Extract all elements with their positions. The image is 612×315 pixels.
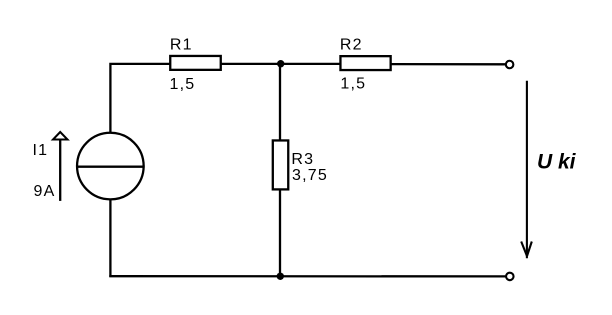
svg-text:U ki: U ki (537, 151, 577, 174)
wire: source bottom to bottom rail (109, 199, 111, 277)
svg-text:1,5: 1,5 (340, 76, 366, 93)
terminal: bottom output (open circle) (506, 273, 514, 281)
svg-text:R1: R1 (170, 36, 193, 53)
svg-text:I1: I1 (33, 142, 49, 159)
wire: R2 to output terminal (391, 63, 505, 66)
wire: R1 to node A (221, 63, 281, 65)
wire: top-left corner (source top to R1) (110, 64, 170, 134)
wire: bottom rail (109, 275, 505, 277)
svg-text:R2: R2 (340, 36, 363, 53)
resistor R2 (340, 56, 390, 70)
svg-text:R3: R3 (291, 151, 314, 168)
svg-text:3,75: 3,75 (292, 167, 328, 184)
wire: R3 to node B (279, 190, 281, 277)
svg-text:9A: 9A (34, 183, 56, 200)
wire: node A down to R3 (279, 64, 281, 141)
node B junction dot (277, 273, 284, 280)
node A junction dot (277, 60, 284, 67)
wire: node A to R2 (280, 63, 341, 65)
terminal: top output (open circle) (506, 61, 513, 69)
resistor R3 (273, 140, 288, 189)
current direction arrow of I1 (53, 132, 68, 201)
svg-text:1,5: 1,5 (170, 76, 196, 93)
resistor R1 (170, 56, 221, 70)
voltage arrow U ki (521, 81, 532, 258)
current source I1 (76, 133, 144, 200)
